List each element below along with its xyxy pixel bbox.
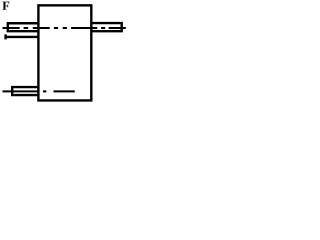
bottom shaft stub	[12, 87, 38, 95]
bracket under left stub	[5, 34, 39, 39]
bottom shaft centerline	[3, 90, 75, 92]
top shaft right stub	[91, 23, 122, 31]
top shaft centerline	[3, 27, 126, 29]
label F	[2, 2, 9, 10]
top shaft left stub	[8, 23, 39, 31]
housing rectangle	[38, 5, 91, 100]
